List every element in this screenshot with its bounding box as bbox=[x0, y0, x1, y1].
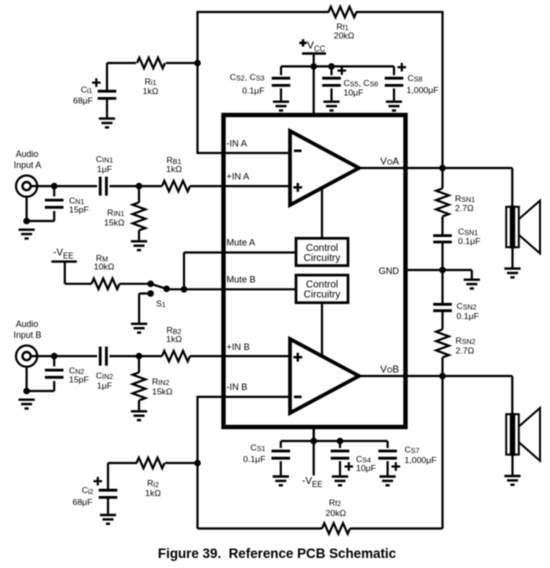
svg-text:1μF: 1μF bbox=[97, 380, 112, 390]
svg-text:68μF: 68μF bbox=[73, 96, 93, 106]
svg-text:0.1μF: 0.1μF bbox=[242, 85, 264, 95]
svg-text:Audio: Audio bbox=[16, 149, 39, 159]
svg-text:-VEE: -VEE bbox=[53, 247, 73, 260]
svg-text:GND: GND bbox=[379, 266, 400, 276]
svg-text:RSN2: RSN2 bbox=[456, 336, 476, 347]
svg-text:1μF: 1μF bbox=[97, 164, 112, 174]
svg-text:20kΩ: 20kΩ bbox=[334, 31, 355, 41]
svg-text:-IN B: -IN B bbox=[227, 382, 248, 392]
svg-text:Ci2: Ci2 bbox=[82, 485, 94, 496]
svg-text:Input B: Input B bbox=[14, 330, 42, 340]
svg-text:CS8: CS8 bbox=[408, 73, 423, 84]
svg-text:Circuitry: Circuitry bbox=[304, 253, 341, 264]
svg-text:Ci1: Ci1 bbox=[81, 84, 93, 95]
svg-text:68μF: 68μF bbox=[73, 497, 93, 507]
svg-text:1,000μF: 1,000μF bbox=[407, 85, 439, 95]
svg-text:RIN1: RIN1 bbox=[107, 208, 124, 219]
svg-text:1,000μF: 1,000μF bbox=[405, 455, 437, 465]
svg-text:20kΩ: 20kΩ bbox=[326, 508, 347, 518]
svg-text:Rf2: Rf2 bbox=[329, 497, 341, 508]
svg-text:10μF: 10μF bbox=[344, 88, 364, 98]
svg-text:CSN2: CSN2 bbox=[457, 301, 477, 312]
svg-text:-IN A: -IN A bbox=[227, 138, 248, 148]
svg-text:2.7Ω: 2.7Ω bbox=[456, 346, 475, 356]
svg-text:0.1μF: 0.1μF bbox=[457, 311, 479, 321]
svg-text:Circuitry: Circuitry bbox=[304, 290, 341, 301]
svg-text:CS1: CS1 bbox=[251, 442, 266, 453]
svg-text:-VEE: -VEE bbox=[302, 476, 322, 489]
svg-text:10μF: 10μF bbox=[356, 463, 376, 473]
svg-text:VOA: VOA bbox=[380, 156, 399, 167]
svg-text:15pF: 15pF bbox=[69, 205, 89, 215]
svg-text:S1: S1 bbox=[156, 299, 166, 310]
svg-text:Input A: Input A bbox=[14, 160, 42, 170]
svg-text:15pF: 15pF bbox=[69, 375, 89, 385]
svg-text:15kΩ: 15kΩ bbox=[104, 218, 125, 228]
svg-text:VOB: VOB bbox=[380, 364, 399, 375]
svg-text:CS7: CS7 bbox=[405, 444, 420, 455]
svg-text:+IN B: +IN B bbox=[227, 342, 250, 352]
svg-text:Mute B: Mute B bbox=[227, 275, 256, 285]
svg-text:1kΩ: 1kΩ bbox=[166, 334, 182, 344]
svg-text:Figure 39. Reference PCB Sche: Figure 39. Reference PCB Schematic bbox=[158, 546, 397, 561]
svg-text:2.7Ω: 2.7Ω bbox=[455, 203, 474, 213]
svg-text:CS2, CS3: CS2, CS3 bbox=[230, 72, 265, 83]
svg-text:1kΩ: 1kΩ bbox=[166, 164, 182, 174]
svg-text:0.1μF: 0.1μF bbox=[458, 236, 480, 246]
svg-text:Mute A: Mute A bbox=[227, 238, 256, 248]
svg-text:1kΩ: 1kΩ bbox=[145, 488, 161, 498]
svg-text:CIN1: CIN1 bbox=[96, 154, 113, 165]
svg-text:+IN A: +IN A bbox=[227, 172, 251, 182]
svg-text:15kΩ: 15kΩ bbox=[152, 386, 173, 396]
svg-text:0.1μF: 0.1μF bbox=[243, 454, 265, 464]
svg-text:10kΩ: 10kΩ bbox=[94, 261, 115, 271]
svg-text:1kΩ: 1kΩ bbox=[143, 86, 159, 96]
svg-text:Audio: Audio bbox=[16, 319, 39, 329]
svg-text:VCC: VCC bbox=[307, 41, 326, 54]
